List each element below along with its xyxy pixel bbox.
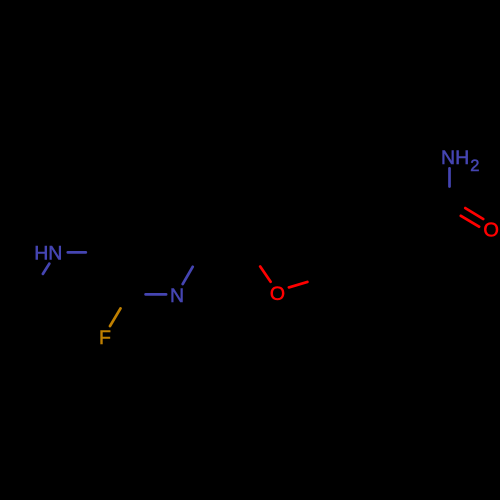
svg-text:F: F xyxy=(99,327,111,349)
svg-text:HN: HN xyxy=(34,243,62,265)
bond O-C7a (red half, diagonal up-right of furan O) xyxy=(289,282,308,288)
svg-text:O: O xyxy=(483,219,499,241)
double bond C=O line 1 (red half, upper) xyxy=(465,208,483,219)
bond HN-CH3 (blue half, down-left of HN) xyxy=(43,264,49,274)
svg-text:O: O xyxy=(270,283,285,305)
double bond C=O line 2 (red half, lower) xyxy=(461,216,479,227)
bond O-C2' (red half, diagonal up-left of furan O) xyxy=(260,267,270,282)
bond HN-C3 (blue half, horizontal right of HN) xyxy=(68,251,86,254)
svg-text:NH: NH xyxy=(441,147,469,169)
bond N1-C6 (blue half, diagonal up-right of N1) xyxy=(183,267,193,284)
bond N-C(amide) (blue half, vertical below NH2) xyxy=(448,168,451,186)
svg-text:N: N xyxy=(170,285,184,307)
bond C2-F (gold half, up-right of F) xyxy=(110,308,121,326)
bond N1-C2 (blue half, horizontal left of N1) xyxy=(146,293,167,296)
svg-text:2: 2 xyxy=(470,157,479,175)
